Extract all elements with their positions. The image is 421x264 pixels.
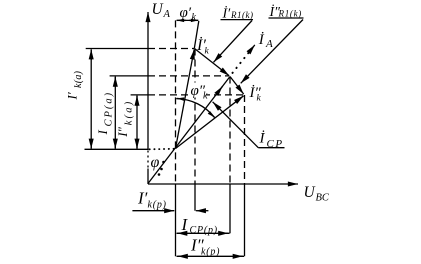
svg-text:k: k [192, 12, 197, 23]
underline of I''_R1(k) label [269, 17, 304, 19]
svg-text:A: A [265, 38, 273, 50]
svg-text:İ′: İ′ [222, 5, 232, 21]
svg-text:BC: BC [316, 193, 330, 204]
leader arrow I_CP label [213, 102, 259, 148]
svg-text:φ: φ [151, 154, 160, 171]
svg-text:I′: I′ [65, 92, 80, 100]
svg-text:I: I [181, 215, 189, 234]
svg-text:I: I [95, 130, 110, 136]
dotted extension of I_A beyond A [233, 50, 251, 73]
leader arrow I''_R1(k) [241, 20, 303, 84]
underline of I'_R1(k) label [221, 19, 254, 21]
vector I''_k (P to T2) [176, 96, 244, 149]
svg-text:R1(k): R1(k) [278, 9, 303, 19]
svg-text:I′: I′ [137, 189, 148, 208]
arrow on I_CP line (direction arrow) [217, 86, 223, 93]
svg-text:k: k [203, 91, 208, 102]
dashed vertical through T2 [244, 95, 246, 184]
segment A to T2 with arrow at T2 [230, 77, 244, 95]
angle phi dotted arc at origin [158, 161, 165, 176]
angle phi''_k arc [176, 99, 214, 118]
svg-text:CP(p): CP(p) [190, 225, 218, 236]
svg-text:CP: CP [267, 138, 284, 150]
label I_CP(a) rotated [95, 91, 115, 136]
svg-text:k(a): k(a) [124, 100, 135, 126]
label phi''_k [190, 83, 207, 98]
svg-text:k: k [257, 94, 262, 104]
label I'_K(a) rotated [65, 70, 85, 100]
axis U_BC [148, 183, 298, 185]
label I''_K(a) rotated [115, 100, 135, 138]
svg-text:R1(k): R1(k) [230, 10, 254, 20]
extension line level T2 [131, 94, 148, 96]
dimension I''_k(p) horizontal [177, 255, 245, 257]
underline of I_CP label [258, 147, 284, 149]
svg-text:k(p): k(p) [201, 247, 220, 258]
dimension I'_K(a) vertical [90, 50, 92, 149]
extension line level A [110, 75, 148, 77]
angle phi'_k dimension line [177, 19, 199, 21]
svg-text:I″: I″ [115, 126, 130, 137]
svg-text:A: A [163, 9, 171, 20]
dimension I_CP(p) horizontal [177, 232, 230, 234]
svg-text:k(p): k(p) [148, 200, 167, 211]
extension of I'_k beyond tip [194, 21, 199, 49]
dashed vertical through T1 [194, 49, 196, 185]
dimension I'_k(p) horizontal (outside arrows) [132, 210, 174, 212]
vector I_CP (O to P, line O-P-A) [148, 77, 230, 184]
svg-text:k: k [205, 47, 210, 57]
extension line level P (baseline) [85, 148, 149, 150]
svg-text:k(a): k(a) [73, 70, 84, 88]
svg-text:CP(a): CP(a) [104, 91, 115, 127]
dashed vertical through A [229, 77, 231, 185]
vector I'_k (P to T1) [176, 49, 195, 148]
axis U_A [147, 12, 149, 150]
svg-text:İ: İ [258, 32, 265, 48]
dimension I_CP(a) vertical [114, 77, 116, 148]
svg-text:İ: İ [259, 131, 266, 147]
segment T1 to A with arrow at A [195, 49, 230, 76]
extension line level T1 [86, 48, 148, 50]
svg-text:φ′: φ′ [180, 5, 192, 21]
leader arrow I'_R1(k) [214, 21, 253, 63]
dimension I''_K(a) vertical [136, 96, 138, 148]
dashed vertical through P (angle reference) [175, 20, 177, 184]
